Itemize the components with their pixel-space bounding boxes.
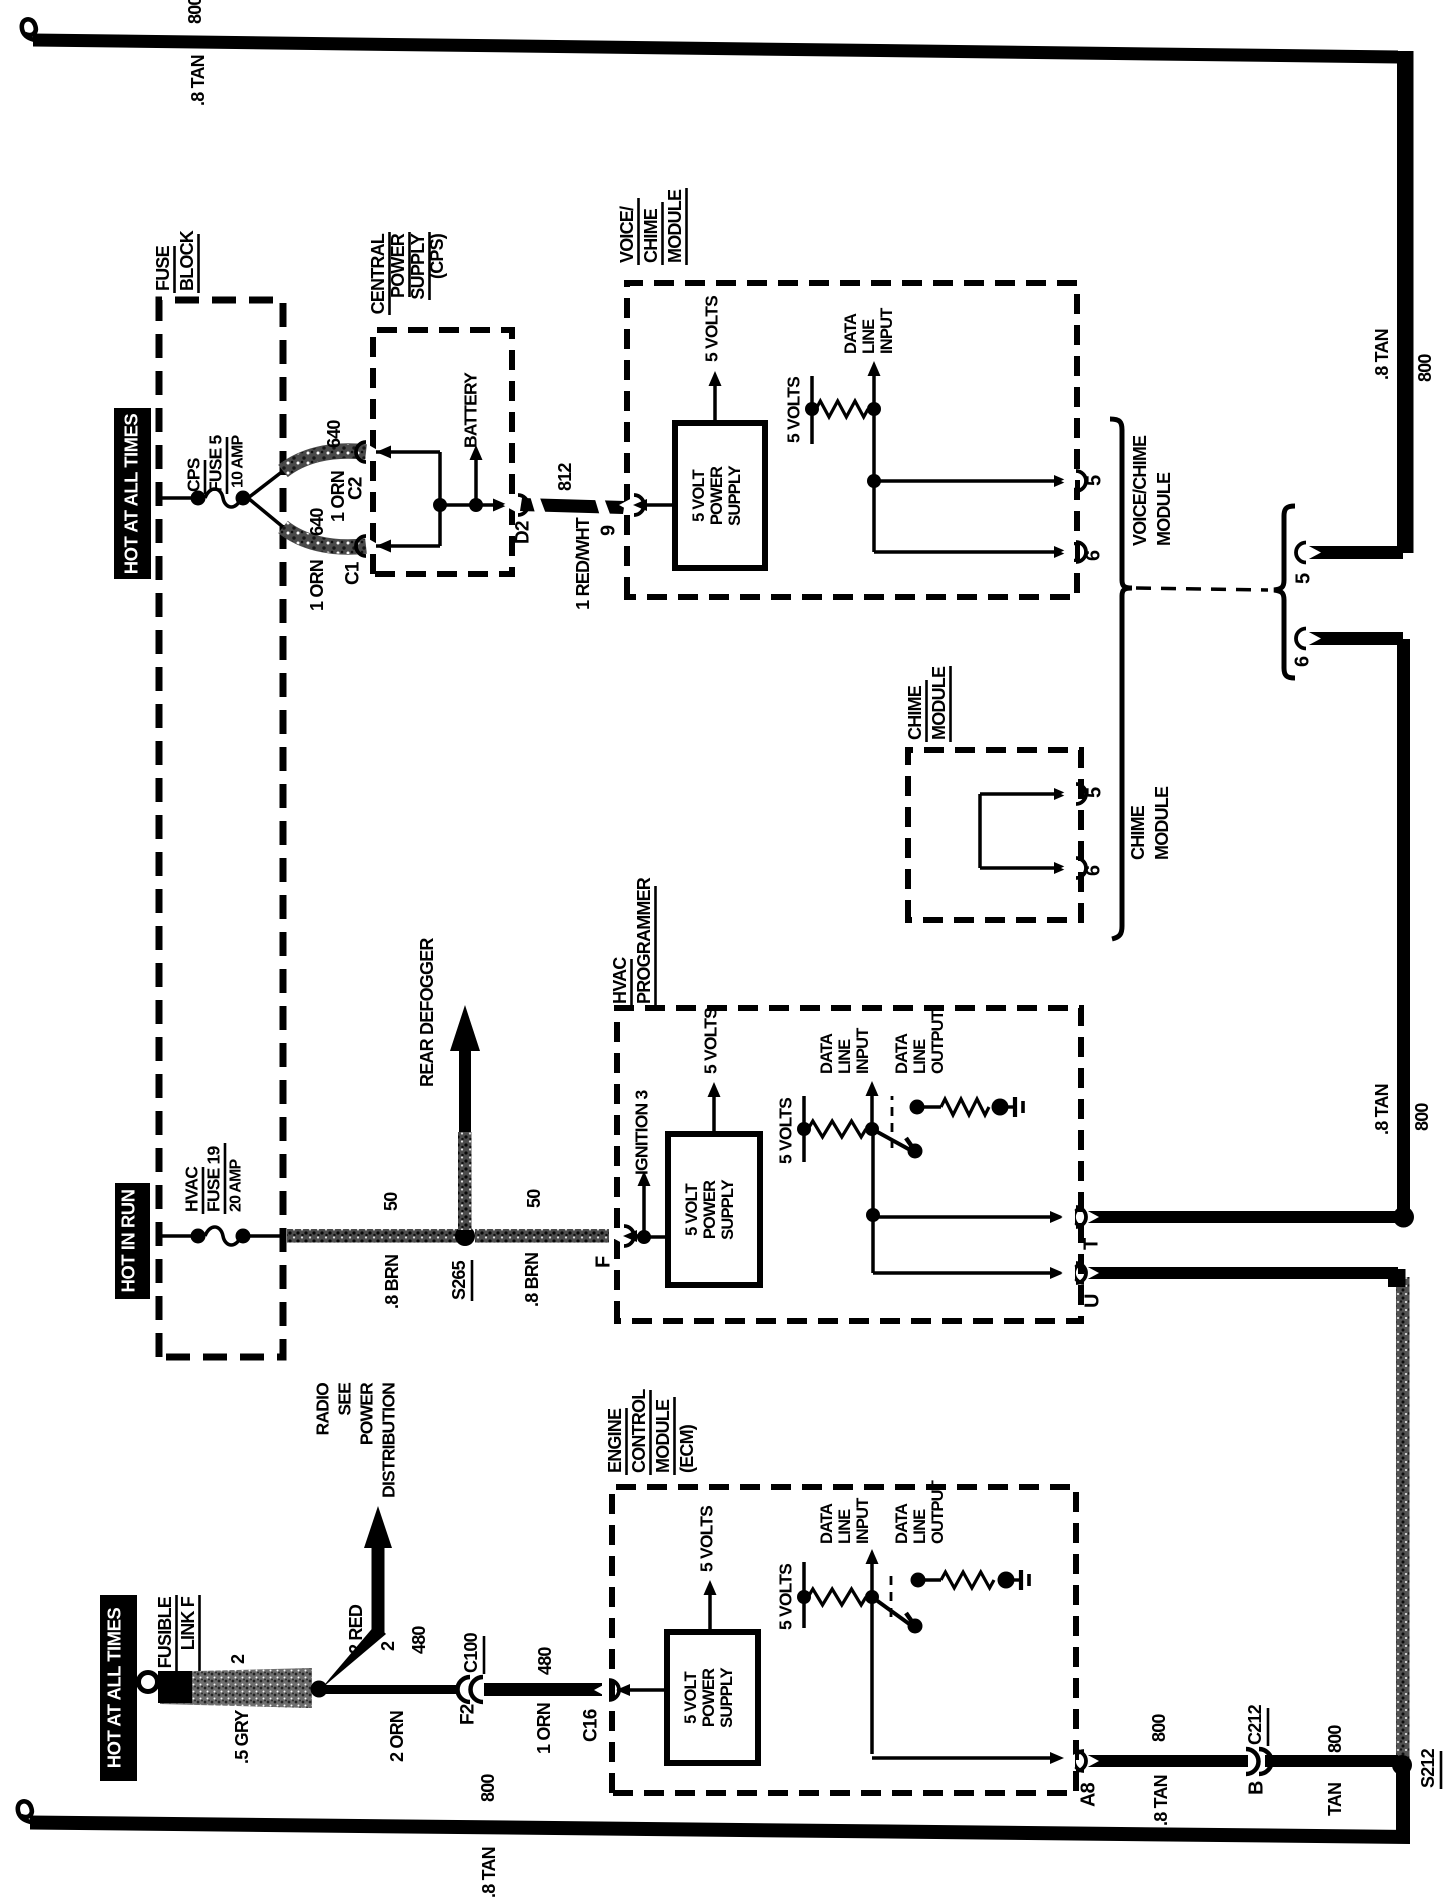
wire - HVAC DATA LINE INPUT arrow <box>870 1094 874 1129</box>
svg-text:.8 TAN: .8 TAN <box>1151 1775 1171 1826</box>
svg-text:.5 GRY: .5 GRY <box>232 1710 252 1764</box>
wire - splice S212 to left bus elbow <box>1396 1763 1410 1843</box>
svg-text:POWER: POWER <box>708 466 726 525</box>
svg-text:.8 TAN: .8 TAN <box>1372 1084 1392 1135</box>
node - junction of T line and bus 800 <box>1393 1207 1414 1228</box>
svg-text:5: 5 <box>1083 787 1105 798</box>
svg-text:C1: C1 <box>343 561 364 585</box>
svg-text:480: 480 <box>409 1626 429 1654</box>
svg-text:2: 2 <box>378 1641 398 1651</box>
svg-text:10 AMP: 10 AMP <box>230 434 247 488</box>
svg-text:IGNITION 3: IGNITION 3 <box>632 1090 652 1175</box>
svg-text:C16: C16 <box>581 1709 602 1742</box>
bracket - grouping voice/chime and chime module pins <box>1110 419 1132 939</box>
node - ECM rail node <box>797 1590 811 1604</box>
svg-text:POWER: POWER <box>388 233 408 298</box>
wire - bus 800 hook / break symbol at top right <box>22 19 64 41</box>
svg-text:(ECM): (ECM) <box>677 1424 697 1473</box>
svg-text:5 VOLTS: 5 VOLTS <box>784 377 804 443</box>
svg-text:BATTERY: BATTERY <box>461 372 481 448</box>
wire - bus 800 hook / break symbol at top left <box>18 1801 60 1823</box>
wire - ECM data node to pin A8 <box>870 1597 874 1754</box>
wire - bus 800 from brace pin 6 down to junction S-bus <box>1307 632 1403 645</box>
svg-text:50: 50 <box>524 1189 544 1208</box>
fuse - HVAC FUSE 19 20 AMP in fuse block <box>160 1234 196 1238</box>
svg-text:F2: F2 <box>458 1704 479 1725</box>
svg-text:5 VOLT: 5 VOLT <box>690 469 708 521</box>
svg-text:INPUT: INPUT <box>854 1028 872 1074</box>
svg-text:.8 TAN: .8 TAN <box>1372 329 1392 380</box>
connector - voice/chime pin 9 at top edge <box>619 498 633 513</box>
svg-text:5 VOLT: 5 VOLT <box>683 1183 701 1235</box>
component - ENGINE CONTROL MODULE (ECM) dashed box <box>612 1487 1076 1793</box>
svg-text:ENGINE: ENGINE <box>605 1408 625 1473</box>
svg-text:INPUT: INPUT <box>878 308 896 354</box>
wire - switch contact to output resistor <box>917 1105 941 1109</box>
resistor - HVAC data line output load <box>941 1099 989 1115</box>
svg-text:CHIME: CHIME <box>1128 805 1148 860</box>
component - voice/chime 5 VOLT POWER SUPPLY box <box>675 423 765 568</box>
svg-text:TAN: TAN <box>1325 1783 1345 1816</box>
node - fusible link junction <box>311 1681 328 1698</box>
svg-text:HVAC: HVAC <box>182 1166 202 1212</box>
svg-text:640: 640 <box>324 420 344 448</box>
svg-text:LINE: LINE <box>911 1039 929 1074</box>
component - CENTRAL POWER SUPPLY (CPS) dashed box <box>373 330 512 574</box>
node - ECM data node <box>865 1590 879 1604</box>
svg-text:HOT IN RUN: HOT IN RUN <box>117 1189 138 1292</box>
svg-text:5 VOLTS: 5 VOLTS <box>702 296 722 362</box>
wire - bus 800 riser to twisted-pair brace pin 5 <box>1307 546 1403 559</box>
resistor - voice/chime data line pullup <box>816 401 868 417</box>
resistor - ECM data line output load <box>941 1572 994 1588</box>
svg-text:DATA: DATA <box>893 1033 911 1074</box>
svg-text:U: U <box>1081 1294 1103 1308</box>
node - splice S212 <box>1392 1755 1412 1775</box>
svg-text:LINE: LINE <box>860 319 878 354</box>
wire - REAR DEFOGGER branch from S265 <box>458 1132 472 1230</box>
resistor - ECM data line pullup <box>808 1589 866 1605</box>
svg-text:REAR DEFOGGER: REAR DEFOGGER <box>417 938 437 1087</box>
svg-text:MODULE: MODULE <box>1154 472 1174 546</box>
switch - HVAC data line output switch <box>872 1129 912 1151</box>
node - CPS battery junction <box>469 498 483 512</box>
node - HVAC feed junction <box>636 1234 644 1238</box>
wire - fat branch circuit 640 to CPS C2 <box>283 451 366 471</box>
wire - fuse 5 output Y split to C1/C2 <box>248 471 283 498</box>
svg-text:C100: C100 <box>461 1632 481 1673</box>
connector - CPS D2 pin at bottom edge <box>493 499 508 512</box>
svg-text:B: B <box>1245 1781 1267 1795</box>
wire - serial data bus 800, right vertical run (.8 TAN) <box>33 34 1398 64</box>
svg-text:D2: D2 <box>513 521 534 544</box>
svg-text:MODULE: MODULE <box>929 666 949 740</box>
connector - chime pin 6 at bottom edge <box>1061 861 1075 875</box>
svg-text:5: 5 <box>1292 573 1314 584</box>
svg-text:9: 9 <box>597 525 619 536</box>
svg-text:C212: C212 <box>1245 1704 1265 1745</box>
svg-text:2 RED: 2 RED <box>346 1604 366 1654</box>
svg-text:DATA: DATA <box>818 1033 836 1074</box>
ground - ECM data line output ground <box>998 1572 1015 1589</box>
svg-text:LINE: LINE <box>836 1509 854 1544</box>
svg-text:OUTPUT: OUTPUT <box>929 1480 947 1544</box>
svg-text:LINE: LINE <box>911 1509 929 1544</box>
svg-text:MODULE: MODULE <box>665 189 685 263</box>
svg-text:SUPPLY: SUPPLY <box>726 465 744 525</box>
wire - HVAC 5 VOLTS output arrow <box>712 1095 716 1134</box>
svg-text:LINE: LINE <box>836 1039 854 1074</box>
svg-text:C2: C2 <box>346 477 367 500</box>
label - HOT AT ALL TIMES header (left) <box>100 1595 137 1781</box>
svg-text:(CPS): (CPS) <box>427 233 447 279</box>
connector - HVAC pin U at bottom edge <box>1061 1266 1075 1280</box>
connector - voice/chime pin 5 at bottom edge <box>1061 474 1075 488</box>
wire - ECM pullup rail <box>802 1562 806 1628</box>
svg-text:640: 640 <box>307 508 327 536</box>
svg-text:DATA: DATA <box>842 313 860 354</box>
svg-text:VOICE/CHIME: VOICE/CHIME <box>1130 435 1150 546</box>
connector - voice/chime pin 6 at bottom edge <box>1061 545 1075 559</box>
svg-text:A8: A8 <box>1077 1782 1099 1807</box>
connector - HVAC pin T at bottom edge <box>1061 1210 1075 1224</box>
svg-text:2: 2 <box>228 1654 248 1664</box>
wire - ECM switch contact to output resistor <box>918 1578 941 1582</box>
svg-text:CONTROL: CONTROL <box>629 1389 649 1473</box>
switch - ECM data line output switch <box>872 1597 912 1626</box>
wire - bus 800 horizontal run between HVAC T junction and pin-6 riser <box>1397 639 1410 1217</box>
svg-text:800: 800 <box>1415 354 1435 382</box>
svg-text:6: 6 <box>1082 550 1104 561</box>
wire - voice/chime 5 VOLTS output arrow <box>713 384 717 423</box>
connector - ECM pin A8 at bottom edge <box>1061 1754 1075 1768</box>
wire - ECM DATA LINE INPUT arrow <box>870 1562 874 1597</box>
svg-text:MODULE: MODULE <box>1152 786 1172 860</box>
svg-text:HVAC: HVAC <box>610 957 630 1004</box>
svg-text:.8 BRN: .8 BRN <box>522 1253 542 1307</box>
wire - 1 RED/WHT 812 bolt from D2 to voice/chime pin 9 <box>520 498 625 514</box>
wire - IGNITION 3 arrow <box>642 1184 646 1237</box>
wire - serial data bus 800, left vertical run (TAN) <box>30 1816 1410 1845</box>
svg-text:5 VOLTS: 5 VOLTS <box>776 1098 796 1164</box>
wire - heavy wire C100 to ECM C16 (1 ORN 480) <box>484 1683 602 1696</box>
svg-text:5: 5 <box>1083 475 1105 486</box>
component - VOICE/CHIME MODULE dashed box <box>627 283 1077 597</box>
svg-text:812: 812 <box>555 463 575 491</box>
svg-text:5 VOLTS: 5 VOLTS <box>697 1506 717 1572</box>
svg-text:CHIME: CHIME <box>641 208 661 263</box>
label - HOT AT ALL TIMES header (top right) <box>114 408 151 579</box>
wire - hatched feed wire from fuse 19 to S265 (.8 BRN 50) <box>287 1229 459 1243</box>
wire - heavy feed junction to C100 (2 ORN 480) <box>322 1685 458 1694</box>
svg-text:1 ORN: 1 ORN <box>534 1703 554 1754</box>
svg-text:20 AMP: 20 AMP <box>228 1158 245 1212</box>
svg-text:F: F <box>592 1256 614 1268</box>
wire - voice/chime data node to pins 5 and 6 <box>872 409 876 552</box>
svg-text:FUSE: FUSE <box>153 245 173 291</box>
brace - twisted pair to bus 800 <box>1274 506 1295 678</box>
svg-text:5 VOLTS: 5 VOLTS <box>776 1564 796 1630</box>
svg-text:MODULE: MODULE <box>653 1399 673 1473</box>
svg-text:PROGRAMMER: PROGRAMMER <box>634 877 654 1004</box>
wire - HVAC programmer pin T heavy lead <box>1085 1211 1401 1223</box>
svg-text:5 VOLTS: 5 VOLTS <box>701 1008 721 1074</box>
connector - CPS C2 pin <box>367 444 381 460</box>
svg-text:2 ORN: 2 ORN <box>387 1711 407 1762</box>
svg-text:FUSE 5: FUSE 5 <box>206 434 226 492</box>
wire - BATTERY arrow inside CPS <box>474 458 478 505</box>
svg-text:POWER: POWER <box>700 1668 718 1727</box>
connector C100 symbol <box>461 1678 478 1700</box>
svg-text:SUPPLY: SUPPLY <box>408 233 428 299</box>
svg-text:SUPPLY: SUPPLY <box>718 1667 736 1727</box>
svg-text:OUTPUT: OUTPUT <box>929 1010 947 1074</box>
svg-text:VOICE/: VOICE/ <box>617 206 637 263</box>
svg-text:800: 800 <box>1149 1714 1169 1742</box>
svg-text:SEE: SEE <box>335 1383 355 1416</box>
wire - voice/chime 5 volts pullup rail <box>810 376 814 444</box>
wire - HVAC programmer pin U heavy lead <box>1085 1267 1398 1279</box>
node - voice/chime data node <box>867 402 881 416</box>
wire - voice/chime DATA LINE INPUT arrow <box>872 374 876 409</box>
wire - hatched feed wire S265 to HVAC pin F (.8 BRN 50) <box>475 1229 609 1243</box>
component - FUSE BLOCK dashed box <box>159 300 283 1357</box>
component - HVAC PROGRAMMER dashed box <box>617 1008 1081 1321</box>
svg-text:POWER: POWER <box>701 1180 719 1239</box>
wire - dashed link from bracket to twisted pair brace <box>1136 588 1268 590</box>
svg-text:6: 6 <box>1082 865 1104 876</box>
svg-text:POWER: POWER <box>357 1382 377 1445</box>
resistor - HVAC data line pullup <box>808 1121 866 1137</box>
wire - ECM pin A8 heavy lead down to C212 and S212 <box>1085 1755 1398 1767</box>
component - HVAC 5 VOLT POWER SUPPLY box <box>668 1134 760 1285</box>
svg-text:.8 TAN: .8 TAN <box>479 1847 499 1898</box>
svg-text:1 ORN: 1 ORN <box>307 560 327 611</box>
node - HVAC data node <box>865 1122 879 1136</box>
svg-text:FUSE 19: FUSE 19 <box>204 1146 224 1212</box>
svg-text:CENTRAL: CENTRAL <box>368 233 388 314</box>
svg-text:SUPPLY: SUPPLY <box>719 1179 737 1239</box>
wire - HVAC data node to pins T and U <box>871 1129 875 1215</box>
node - rail to resistor <box>805 402 819 416</box>
svg-text:INPUT: INPUT <box>854 1498 872 1544</box>
node - HVAC rail node <box>797 1122 811 1136</box>
wire - chime module internal link pins 5-6 <box>978 794 982 868</box>
svg-text:BLOCK: BLOCK <box>177 230 197 291</box>
fusible link F band (.5 GRY) <box>160 1668 312 1708</box>
svg-text:50: 50 <box>381 1192 401 1211</box>
connector C212 symbol on A8/S212 wire <box>1248 1750 1265 1772</box>
wire - fat branch circuit 640 to CPS C1 <box>283 527 366 547</box>
svg-text:5 VOLT: 5 VOLT <box>682 1671 700 1723</box>
svg-text:CHIME: CHIME <box>905 685 925 740</box>
svg-text:6: 6 <box>1291 656 1313 667</box>
svg-text:800: 800 <box>478 1774 498 1802</box>
wire - HVAC pullup rail <box>802 1096 806 1162</box>
connector - chime pin 5 at bottom edge <box>1061 787 1075 801</box>
svg-text:DATA: DATA <box>818 1503 836 1544</box>
svg-text:480: 480 <box>535 1647 555 1675</box>
svg-text:HOT AT ALL TIMES: HOT AT ALL TIMES <box>103 1608 124 1769</box>
svg-text:CPS: CPS <box>184 458 204 492</box>
svg-text:RADIO: RADIO <box>313 1383 333 1436</box>
terminal ring - fusible link F <box>139 1673 158 1692</box>
wire - bus 800 bottom horizontal run to brace pin 5 <box>1397 51 1414 553</box>
svg-text:.8 TAN: .8 TAN <box>188 55 208 106</box>
node - splice S265 <box>455 1226 475 1246</box>
svg-text:800: 800 <box>185 0 205 24</box>
wire - heavy 2 RED branch arrow to radio feed <box>322 1624 386 1688</box>
svg-text:.8 BRN: .8 BRN <box>382 1255 402 1309</box>
svg-text:T: T <box>1080 1238 1102 1250</box>
label - HOT IN RUN header <box>115 1183 150 1299</box>
wire - bus 800 hatched horizontal run from U lead to splice S212 (.8 TAN) <box>1396 1277 1410 1763</box>
connector - HVAC pin F at top edge <box>609 1229 623 1244</box>
component - ECM 5 VOLT POWER SUPPLY box <box>667 1632 758 1763</box>
svg-text:FUSIBLE: FUSIBLE <box>155 1596 175 1668</box>
connector - ECM pin C16 at top edge <box>594 1683 608 1698</box>
svg-text:HOT AT ALL TIMES: HOT AT ALL TIMES <box>120 414 141 575</box>
svg-text:S265: S265 <box>449 1260 469 1300</box>
svg-text:DATA: DATA <box>893 1503 911 1544</box>
fuse - CPS FUSE 5 10 AMP in fuse block <box>160 496 196 500</box>
svg-text:LINK F: LINK F <box>178 1596 198 1650</box>
wire - ECM 5 VOLTS output arrow <box>708 1593 712 1632</box>
svg-text:800: 800 <box>1412 1103 1432 1131</box>
svg-text:1 RED/WHT: 1 RED/WHT <box>573 517 593 610</box>
connector - CPS C1 pin <box>367 538 381 554</box>
ground - HVAC data line output ground <box>992 1099 1009 1116</box>
wire - CPS internal from C1/C2 to battery node <box>376 446 391 459</box>
svg-text:S212: S212 <box>1418 1748 1438 1788</box>
component - CHIME MODULE dashed box <box>908 750 1081 920</box>
svg-text:DISTRIBUTION: DISTRIBUTION <box>379 1383 399 1498</box>
svg-text:800: 800 <box>1325 1725 1345 1753</box>
